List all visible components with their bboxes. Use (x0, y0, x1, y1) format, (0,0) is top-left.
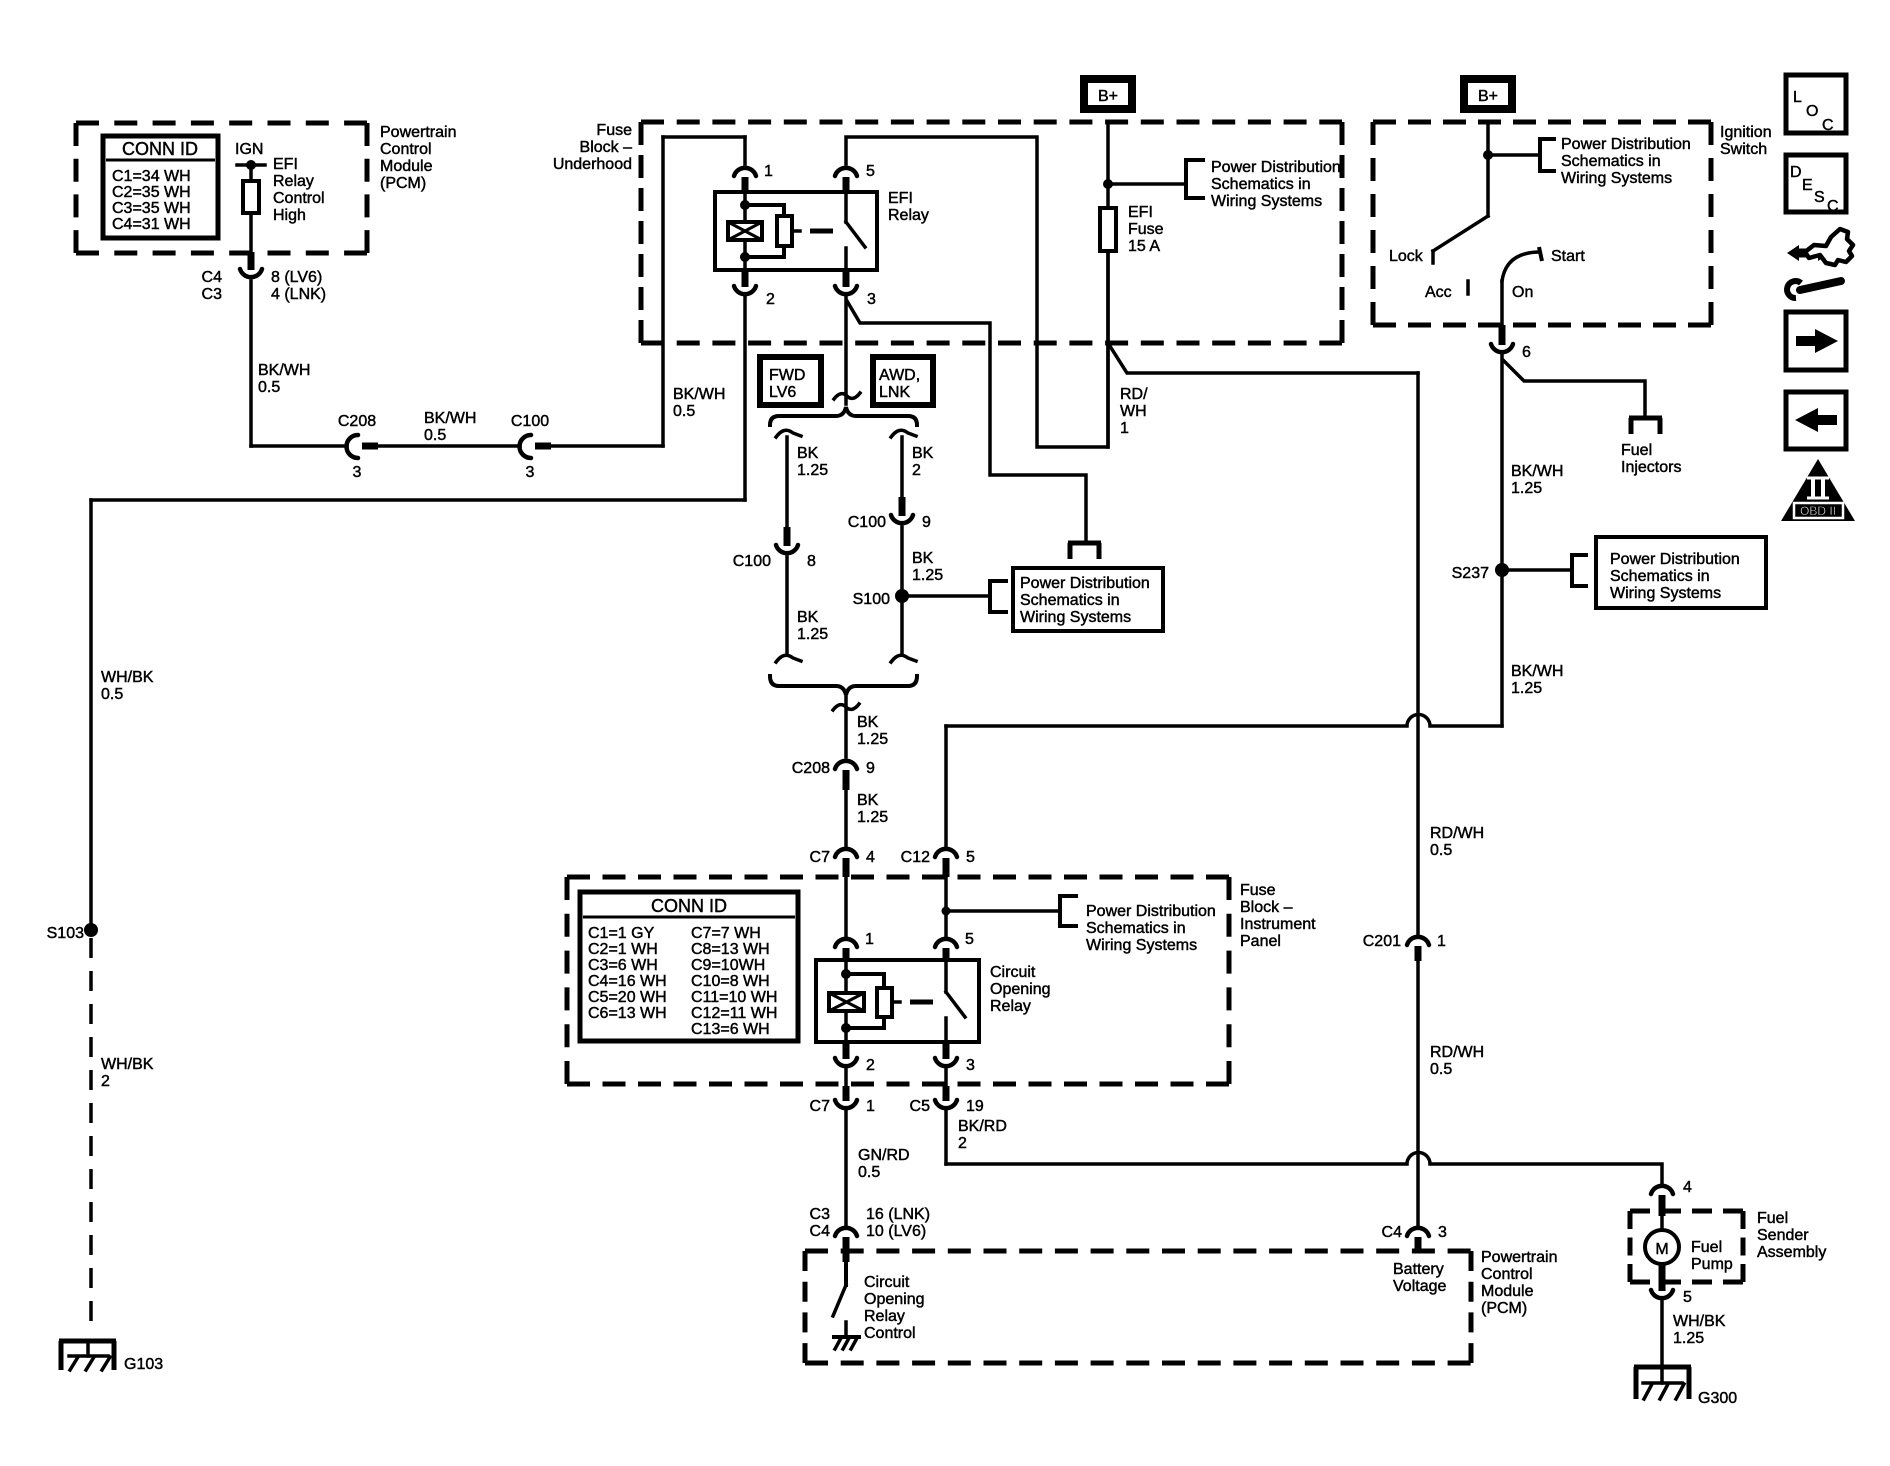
EFI relay pin 1 connector (734, 163, 773, 192)
COR pin 1 connector (835, 877, 874, 960)
svg-text:C3=35 WH: C3=35 WH (112, 200, 191, 217)
connector C208 pin 9 (792, 760, 875, 790)
svg-text:Injectors: Injectors (1621, 459, 1681, 476)
svg-text:C100: C100 (511, 413, 549, 430)
svg-text:9: 9 (866, 760, 875, 777)
svg-text:3: 3 (353, 464, 362, 481)
svg-text:BK: BK (797, 445, 819, 462)
svg-text:Block –: Block – (580, 139, 633, 156)
svg-text:0.5: 0.5 (424, 427, 446, 444)
svg-text:BK/WH: BK/WH (673, 386, 725, 403)
svg-text:4: 4 (1683, 1179, 1692, 1196)
svg-text:BK/WH: BK/WH (258, 362, 310, 379)
ground (PCM internal) (834, 1322, 859, 1349)
svg-text:(PCM): (PCM) (380, 175, 426, 192)
COR pin 3 connector (935, 1042, 975, 1074)
svg-text:C10=8 WH: C10=8 WH (691, 973, 770, 990)
svg-text:M: M (1655, 1241, 1668, 1258)
ground G103 (59, 1341, 163, 1373)
svg-text:2: 2 (958, 1135, 967, 1152)
svg-text:BK: BK (857, 714, 879, 731)
COR switch (946, 960, 965, 1042)
svg-text:C4: C4 (1382, 1224, 1403, 1241)
EFI relay pin 3 connector (835, 270, 876, 308)
svg-text:On: On (1512, 284, 1533, 301)
svg-text:G300: G300 (1698, 1390, 1737, 1407)
svg-text:EFI: EFI (888, 190, 913, 207)
sidebar LOC icon (1786, 75, 1846, 134)
sidebar back arrow icon (1786, 392, 1846, 449)
splice S237 (1452, 563, 1509, 582)
svg-text:Opening: Opening (990, 981, 1051, 998)
wire RD/WH 1 from fuse to right side (1108, 343, 1418, 934)
svg-text:Panel: Panel (1240, 933, 1281, 950)
svg-text:0.5: 0.5 (258, 379, 280, 396)
B+ terminal (ignition) (1464, 79, 1512, 109)
svg-text:Pump: Pump (1691, 1256, 1733, 1273)
svg-text:16 (LNK): 16 (LNK) (866, 1206, 930, 1223)
CONN ID table (PCM) (103, 136, 218, 238)
svg-text:CONN ID: CONN ID (651, 896, 727, 916)
CONN ID table (IP fuse block) (580, 892, 798, 1041)
svg-text:Schematics in: Schematics in (1211, 176, 1311, 193)
svg-text:Fuse: Fuse (1240, 882, 1276, 899)
svg-text:Wiring Systems: Wiring Systems (1020, 609, 1131, 626)
svg-text:IGN: IGN (235, 141, 263, 158)
svg-text:1.25: 1.25 (1511, 680, 1542, 697)
COR pin 5 connector (935, 877, 974, 960)
svg-text:C12=11 WH: C12=11 WH (691, 1005, 777, 1022)
svg-text:1.25: 1.25 (797, 462, 828, 479)
svg-text:3: 3 (526, 464, 535, 481)
callout bracket to Power Distribution (ignition) (1488, 136, 1691, 187)
svg-text:RD/: RD/ (1120, 386, 1148, 403)
svg-text:Power Distribution: Power Distribution (1086, 903, 1216, 920)
options split tilde (834, 393, 860, 399)
EFI relay coil resistor branch (745, 205, 833, 257)
svg-text:0.5: 0.5 (1430, 1061, 1452, 1078)
svg-text:1: 1 (1120, 420, 1129, 437)
svg-text:GN/RD: GN/RD (858, 1147, 910, 1164)
wire BK/WH 0.5 down from C4/C3 (251, 281, 310, 446)
EFI relay switch (846, 192, 865, 270)
svg-text:Block –: Block – (1240, 899, 1293, 916)
ignition switch internals (1389, 122, 1585, 325)
wire resistor to C4/C3 (249, 213, 253, 252)
svg-text:Power Distribution: Power Distribution (1561, 136, 1691, 153)
svg-text:C1=1 GY: C1=1 GY (588, 925, 655, 942)
svg-text:Lock: Lock (1389, 248, 1424, 265)
svg-text:FWD: FWD (769, 367, 805, 384)
svg-text:Powertrain: Powertrain (1481, 1249, 1557, 1266)
svg-text:1: 1 (865, 931, 874, 948)
fuel pump motor M (1645, 1216, 1733, 1273)
svg-text:Control: Control (273, 190, 325, 207)
svg-text:Control: Control (380, 141, 432, 158)
wire BK 1.25 from C208-9 to C7-4 (846, 790, 888, 846)
connector C5 pin 19 (910, 1069, 984, 1115)
EFI fuse 15A (1100, 184, 1164, 447)
connector C7 pin 1 (810, 1069, 875, 1115)
svg-text:Power Distribution: Power Distribution (1020, 575, 1150, 592)
connector C100 pin 8 (733, 527, 816, 570)
svg-text:LV6: LV6 (769, 384, 796, 401)
svg-text:L: L (1793, 89, 1802, 106)
svg-text:C2=1 WH: C2=1 WH (588, 941, 658, 958)
svg-text:Sender: Sender (1757, 1227, 1809, 1244)
svg-text:C8=13 WH: C8=13 WH (691, 941, 770, 958)
svg-text:WH/BK: WH/BK (101, 1056, 154, 1073)
svg-text:0.5: 0.5 (1430, 842, 1452, 859)
svg-text:Control: Control (864, 1325, 916, 1342)
svg-text:2: 2 (866, 1057, 875, 1074)
wire EFI relay pin 5 to EFI fuse (via loop) (846, 137, 1108, 447)
svg-text:B+: B+ (1478, 88, 1498, 105)
svg-text:C7: C7 (810, 1098, 831, 1115)
svg-text:C2=35 WH: C2=35 WH (112, 184, 191, 201)
svg-text:5: 5 (1683, 1289, 1692, 1306)
svg-text:2: 2 (912, 462, 921, 479)
svg-text:Wiring Systems: Wiring Systems (1561, 170, 1672, 187)
splice S103 (47, 923, 98, 942)
connector C3/C4 pins 16(LNK)/10(LV6) (810, 1206, 930, 1262)
svg-text:4 (LNK): 4 (LNK) (271, 286, 326, 303)
svg-text:C208: C208 (338, 413, 376, 430)
Power Distribution box (S237) (1596, 537, 1766, 608)
svg-text:Power Distribution: Power Distribution (1610, 551, 1740, 568)
svg-text:Module: Module (380, 158, 433, 175)
wire BK/RD 2 from C5-19 to fuel pump feed (946, 1111, 1662, 1183)
svg-text:Assembly: Assembly (1757, 1244, 1826, 1261)
svg-text:BK/WH: BK/WH (1511, 663, 1563, 680)
svg-text:Wiring Systems: Wiring Systems (1086, 937, 1197, 954)
svg-text:BK: BK (912, 445, 934, 462)
node IGN terminal (235, 141, 265, 170)
svg-text:EFI: EFI (1128, 204, 1153, 221)
svg-text:Relay: Relay (888, 207, 929, 224)
lower brace (options merge) (770, 676, 917, 695)
COR coil (829, 960, 864, 1042)
svg-text:2: 2 (766, 291, 775, 308)
svg-text:Fuse: Fuse (596, 122, 632, 139)
svg-text:Ignition: Ignition (1720, 124, 1772, 141)
svg-text:C4=31 WH: C4=31 WH (112, 216, 191, 233)
PCM (top-left) dashed box (76, 123, 456, 253)
svg-text:WH/BK: WH/BK (101, 669, 154, 686)
svg-text:Fuse: Fuse (1128, 221, 1164, 238)
terminal staple into S100 box (1068, 543, 1101, 559)
branch to fuel injectors (1503, 360, 1681, 476)
svg-text:Circuit: Circuit (990, 964, 1036, 981)
AWD,LNK option box (873, 357, 933, 405)
svg-text:C100: C100 (848, 514, 886, 531)
callout bracket to Power Distribution (underhood) (1108, 159, 1341, 210)
svg-text:Powertrain: Powertrain (380, 124, 456, 141)
connector C208 pin 3 (inline) (338, 413, 378, 481)
svg-text:RD/WH: RD/WH (1430, 825, 1484, 842)
svg-text:CONN ID: CONN ID (122, 139, 198, 159)
svg-text:0.5: 0.5 (673, 403, 695, 420)
svg-text:C5: C5 (910, 1098, 931, 1115)
callout bracket S100 to box (902, 581, 1006, 612)
Battery Voltage label (1393, 1261, 1446, 1295)
svg-text:1.25: 1.25 (912, 567, 943, 584)
svg-text:Underhood: Underhood (553, 156, 632, 173)
svg-text:EFI: EFI (273, 156, 298, 173)
svg-text:Instrument: Instrument (1240, 916, 1316, 933)
EFI relay pin 5 connector (835, 163, 875, 192)
splice S100 (853, 589, 909, 608)
wire WH/BK 1.25 to G300 (1662, 1301, 1726, 1367)
svg-text:C4: C4 (202, 269, 223, 286)
svg-text:Fuel: Fuel (1691, 1239, 1722, 1256)
svg-text:4: 4 (866, 849, 875, 866)
svg-text:C3: C3 (202, 286, 223, 303)
hook left (FWD branch start) (776, 430, 801, 437)
svg-text:C6=13 WH: C6=13 WH (588, 1005, 667, 1022)
connector C100 pin 9 (848, 497, 931, 531)
connector C100 pin 3 (inline) (511, 413, 551, 481)
svg-text:C9=10WH: C9=10WH (691, 957, 765, 974)
wire BK 1.25 below C100-9 to S100 (902, 527, 943, 655)
svg-text:Voltage: Voltage (1393, 1278, 1446, 1295)
Power Distribution box (S100) (1013, 568, 1163, 631)
svg-text:C4=16 WH: C4=16 WH (588, 973, 667, 990)
svg-text:Circuit: Circuit (864, 1274, 910, 1291)
svg-text:19: 19 (966, 1098, 984, 1115)
svg-text:10 (LV6): 10 (LV6) (866, 1223, 926, 1240)
svg-text:C: C (1822, 117, 1834, 134)
svg-text:Relay: Relay (864, 1308, 905, 1325)
wire EFI relay pin 2 return (BK/WH to WH/BK) (91, 297, 745, 924)
connector C201 pin 1 (1363, 933, 1446, 961)
FWD LV6 option box (760, 357, 821, 405)
OBD II badge (1781, 459, 1855, 521)
connector C4 pin 3 (battery voltage) (1382, 1224, 1447, 1253)
EFI relay coil (728, 192, 762, 270)
svg-text:S100: S100 (853, 591, 890, 608)
wire BK 1.25 (FWD branch) (787, 437, 828, 527)
svg-text:BK: BK (797, 609, 819, 626)
hook right (AWD branch start) (891, 430, 916, 437)
wire GN/RD 0.5 from C7-1 to C3/C4 (846, 1111, 910, 1225)
resistor (EFI Relay Control High driver) (243, 156, 325, 224)
options merge tilde (833, 704, 859, 710)
svg-text:Schematics in: Schematics in (1561, 153, 1661, 170)
svg-text:G103: G103 (124, 1356, 163, 1373)
COR pin 2 connector (835, 1042, 875, 1074)
svg-text:1.25: 1.25 (1511, 480, 1542, 497)
hook left (bottom of FWD branch) (776, 655, 801, 662)
Ignition Switch dashed box (1373, 122, 1772, 325)
svg-text:AWD,: AWD, (879, 367, 920, 384)
svg-text:C201: C201 (1363, 933, 1401, 950)
upper brace (option split) (770, 407, 917, 425)
svg-text:5: 5 (965, 931, 974, 948)
wire horizontal to C208 (251, 444, 347, 448)
svg-text:C208: C208 (792, 760, 830, 777)
B+ terminal (underhood) (1084, 79, 1132, 189)
svg-text:6: 6 (1522, 344, 1531, 361)
svg-text:B+: B+ (1098, 88, 1118, 105)
svg-text:15 A: 15 A (1128, 238, 1160, 255)
svg-text:Control: Control (1481, 1266, 1533, 1283)
Circuit Opening Relay box (816, 960, 1051, 1042)
wire BK/WH 0.5 between C208 and C100 (378, 410, 520, 446)
svg-text:(PCM): (PCM) (1481, 1300, 1527, 1317)
wire BK/WH 1.25 ignition to S237 (1502, 355, 1563, 570)
wire from S237 branch down to C12-5 (946, 715, 1502, 847)
svg-text:Relay: Relay (273, 173, 314, 190)
svg-text:Start: Start (1551, 248, 1585, 265)
svg-text:9: 9 (922, 514, 931, 531)
svg-text:Wiring Systems: Wiring Systems (1610, 585, 1721, 602)
svg-text:Schematics in: Schematics in (1086, 920, 1186, 937)
svg-text:Switch: Switch (1720, 141, 1767, 158)
svg-text:C1=34 WH: C1=34 WH (112, 168, 191, 185)
svg-text:3: 3 (1438, 1224, 1447, 1241)
sidebar hand/swap icon (1787, 229, 1853, 265)
COR coil resistor branch (846, 974, 933, 1028)
svg-text:1: 1 (1437, 933, 1446, 950)
svg-text:BK/WH: BK/WH (1511, 463, 1563, 480)
svg-text:High: High (273, 207, 306, 224)
wire BK 2 (AWD branch) (902, 437, 934, 497)
svg-text:5: 5 (866, 163, 875, 180)
svg-text:S237: S237 (1452, 565, 1489, 582)
svg-text:C3=6 WH: C3=6 WH (588, 957, 658, 974)
svg-text:C4: C4 (810, 1223, 831, 1240)
sidebar forward arrow icon (1786, 312, 1846, 370)
wire RD/WH 0.5 above C201 (1430, 825, 1484, 859)
svg-text:S: S (1814, 189, 1825, 206)
hook right (bottom of AWD branch) (891, 655, 916, 662)
callout bracket S237 to box (1502, 555, 1586, 586)
Fuse Block - Instrument Panel dashed box (567, 877, 1316, 1084)
svg-text:S103: S103 (47, 925, 84, 942)
svg-text:1: 1 (764, 163, 773, 180)
svg-text:OBD II: OBD II (1800, 504, 1836, 518)
svg-text:1.25: 1.25 (1673, 1330, 1704, 1347)
svg-text:BK: BK (912, 550, 934, 567)
ground G300 (1634, 1367, 1737, 1407)
wire C100 to EFI relay pin 1 (551, 137, 745, 446)
sidebar wrench icon (1787, 281, 1841, 298)
PCM (bottom) dashed box (805, 1249, 1557, 1363)
wire BK 1.25 below C100-8 (787, 557, 828, 655)
svg-text:Schematics in: Schematics in (1610, 568, 1710, 585)
svg-text:WH: WH (1120, 403, 1147, 420)
svg-text:Acc: Acc (1425, 284, 1452, 301)
circuit opening relay control switch (in PCM) (833, 1262, 925, 1342)
svg-text:8 (LV6): 8 (LV6) (271, 269, 322, 286)
svg-text:WH/BK: WH/BK (1673, 1313, 1726, 1330)
wire RD/WH 0.5 from C201 to C4-3 (1418, 961, 1484, 1225)
svg-text:3: 3 (966, 1057, 975, 1074)
svg-text:Module: Module (1481, 1283, 1534, 1300)
svg-text:Relay: Relay (990, 998, 1031, 1015)
svg-text:1.25: 1.25 (857, 731, 888, 748)
svg-text:Fuel: Fuel (1757, 1210, 1788, 1227)
svg-text:C: C (1827, 198, 1839, 215)
svg-text:C5=20 WH: C5=20 WH (588, 989, 667, 1006)
svg-text:1.25: 1.25 (857, 809, 888, 826)
connector C7 pin 4 (810, 849, 875, 877)
svg-text:1: 1 (866, 1098, 875, 1115)
svg-text:C7=7 WH: C7=7 WH (691, 925, 761, 942)
wire BK/WH 1.25 from S237 down to branch (1502, 577, 1563, 726)
EFI relay pin 2 connector (734, 270, 775, 308)
svg-text:O: O (1806, 103, 1818, 120)
Fuel Sender Assembly dashed box (1630, 1210, 1826, 1282)
connector C4/C3 pins 8(LV6)/4(LNK) (202, 252, 327, 303)
svg-text:C13=6 WH: C13=6 WH (691, 1021, 770, 1038)
svg-text:BK: BK (857, 792, 879, 809)
branch EFI pin3 to power distribution feed (847, 301, 1086, 541)
svg-text:Schematics in: Schematics in (1020, 592, 1120, 609)
svg-text:BK/WH: BK/WH (424, 410, 476, 427)
svg-text:C12: C12 (901, 849, 930, 866)
wire EFI relay pin 3 down (to options split) (844, 297, 848, 404)
svg-text:C7: C7 (810, 849, 831, 866)
svg-text:Battery: Battery (1393, 1261, 1444, 1278)
Fuse Block - Underhood dashed box (553, 122, 1342, 343)
svg-text:2: 2 (101, 1073, 110, 1090)
callout bracket to Power Distribution (IP) (942, 896, 1216, 954)
svg-text:0.5: 0.5 (101, 686, 123, 703)
svg-text:8: 8 (807, 553, 816, 570)
svg-text:3: 3 (867, 291, 876, 308)
svg-text:C11=10 WH: C11=10 WH (691, 989, 777, 1006)
svg-text:C100: C100 (733, 553, 771, 570)
EFI relay K1 box (715, 190, 929, 270)
svg-text:D: D (1790, 164, 1802, 181)
svg-text:RD/WH: RD/WH (1430, 1044, 1484, 1061)
svg-text:0.5: 0.5 (858, 1164, 880, 1181)
svg-text:1.25: 1.25 (797, 626, 828, 643)
svg-text:E: E (1802, 177, 1813, 194)
wire WH/BK 2 (dashed) to G103 (91, 938, 154, 1328)
ignition connector pin 6 (1491, 325, 1531, 361)
svg-text:BK/RD: BK/RD (958, 1118, 1007, 1135)
svg-text:C3: C3 (810, 1206, 831, 1223)
svg-text:Wiring Systems: Wiring Systems (1211, 193, 1322, 210)
svg-text:5: 5 (966, 849, 975, 866)
svg-text:Power Distribution: Power Distribution (1211, 159, 1341, 176)
connector C12 pin 5 (901, 849, 975, 877)
sidebar DESC icon (1786, 155, 1846, 215)
svg-text:Opening: Opening (864, 1291, 925, 1308)
wire BK 1.25 from merge to C208-9 (846, 697, 888, 757)
svg-text:LNK: LNK (879, 384, 910, 401)
fuel pump connector 5 (1651, 1264, 1692, 1306)
fuel pump connector 4 (1651, 1179, 1692, 1216)
svg-text:Fuel: Fuel (1621, 442, 1652, 459)
